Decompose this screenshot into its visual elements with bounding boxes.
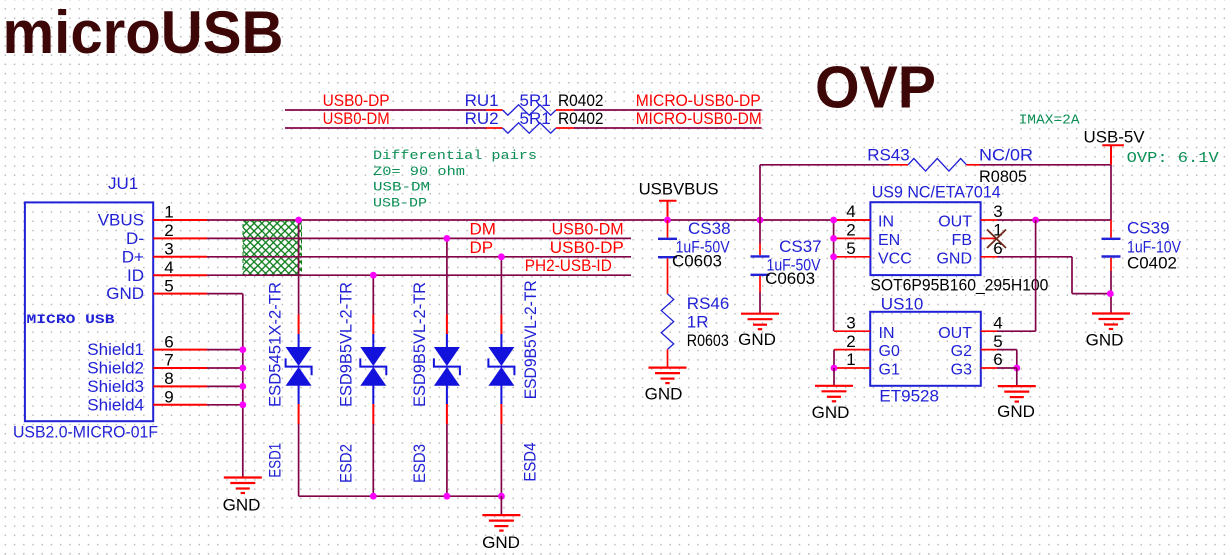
- wire G1 junction to ground: [833, 368, 835, 386]
- wire VBUS / USBVBUS main net: [207, 219, 870, 221]
- JU1 shield pin 9 stub: [153, 404, 207, 406]
- wire US9 GND net: [997, 256, 1072, 258]
- US10 pin 1 stub: [834, 367, 870, 369]
- ground symbol (CS37): [741, 314, 779, 330]
- wire D- net: [207, 237, 631, 239]
- capacitor CS39 top lead: [1110, 220, 1112, 238]
- resistor RS46: [661, 294, 673, 350]
- svg-text:OVP: OVP: [815, 55, 936, 121]
- wire G2 to G3 junction: [997, 349, 1017, 351]
- ground symbol (RS46): [649, 368, 687, 384]
- svg-text:VCC: VCC: [878, 250, 912, 267]
- resistor RU1: [503, 105, 557, 115]
- JU1 pin 1 stub: [153, 219, 207, 221]
- svg-text:USB0-DP: USB0-DP: [323, 91, 390, 110]
- no-connect X on FB: [987, 230, 1006, 249]
- svg-text:ET9528: ET9528: [879, 387, 939, 406]
- junction ESD4 at net: [498, 253, 505, 260]
- resistor RU2 right lead: [556, 127, 574, 129]
- svg-text:RS46: RS46: [687, 294, 730, 313]
- svg-text:GND: GND: [812, 403, 850, 422]
- svg-text:9: 9: [164, 388, 173, 407]
- svg-text:2: 2: [846, 332, 855, 351]
- wire G0 to G1 junction: [833, 350, 835, 368]
- TVS diode ESD2: [372, 315, 374, 335]
- net MICRO-USB0-DM wire: [574, 127, 762, 129]
- wire RS43 left: [760, 164, 889, 166]
- US10 pin 3 stub: [834, 330, 870, 332]
- wire ESD1 branch from net: [298, 220, 300, 315]
- svg-text:ESD5451X-2-TR: ESD5451X-2-TR: [266, 282, 285, 407]
- svg-text:NC/0R: NC/0R: [979, 146, 1033, 165]
- svg-text:IN: IN: [878, 214, 894, 231]
- svg-text:Shield1: Shield1: [87, 340, 144, 359]
- svg-text:US10: US10: [881, 295, 924, 314]
- capacitor CS39: [1102, 239, 1121, 257]
- junction rail ESD4: [498, 493, 505, 500]
- svg-text:2: 2: [164, 221, 173, 240]
- differential pair blanket (green hatched region): [243, 221, 302, 275]
- svg-text:G0: G0: [879, 343, 900, 360]
- svg-text:OUT: OUT: [938, 325, 972, 342]
- net USB0-DP wire (left): [285, 109, 486, 111]
- resistor RS43 left lead: [889, 164, 908, 166]
- svg-text:CS38: CS38: [688, 219, 731, 238]
- JU1 shield pin 8 stub: [153, 385, 207, 387]
- wire USBVBUS rail down to US10: [833, 220, 835, 331]
- wire OUT branch down to US10 OUT: [1035, 220, 1037, 331]
- op-amp U10 box (IC US10): [870, 312, 981, 386]
- svg-text:DM: DM: [470, 220, 496, 239]
- svg-text:VBUS: VBUS: [98, 211, 144, 230]
- junction shield3: [239, 383, 246, 390]
- wire ESD1 to ground rail: [298, 424, 300, 496]
- ground symbol (CS39): [1092, 314, 1130, 330]
- svg-text:Differential pairs: Differential pairs: [373, 148, 537, 163]
- TVS diode ESD4: [500, 315, 502, 335]
- svg-text:GND: GND: [1086, 331, 1124, 350]
- svg-text:Shield2: Shield2: [87, 359, 144, 378]
- svg-text:MICRO-USB0-DM: MICRO-USB0-DM: [636, 109, 762, 128]
- wire ESD2 branch from net: [372, 275, 374, 314]
- wire ESD4 branch from net: [500, 257, 502, 315]
- wire shield2 to ground rail: [207, 367, 243, 369]
- wire ESD3 to ground rail: [446, 424, 448, 496]
- svg-text:GND: GND: [223, 496, 261, 515]
- wire D+ net: [207, 256, 631, 258]
- wire shield3 to ground rail: [207, 385, 243, 387]
- svg-text:JU1: JU1: [108, 174, 138, 193]
- ground symbol (US10 right): [998, 386, 1036, 402]
- svg-text:USB-DP: USB-DP: [373, 196, 427, 211]
- svg-text:D+: D+: [122, 247, 144, 266]
- svg-text:G1: G1: [879, 362, 900, 379]
- svg-text:7: 7: [164, 351, 173, 370]
- svg-text:GND: GND: [738, 330, 776, 349]
- svg-text:CS39: CS39: [1127, 219, 1170, 238]
- svg-text:8: 8: [164, 369, 173, 388]
- svg-text:SOT6P95B160_295H100: SOT6P95B160_295H100: [870, 276, 1048, 295]
- svg-text:4: 4: [164, 258, 173, 277]
- svg-text:5: 5: [164, 276, 173, 295]
- junction rail ESD2: [370, 493, 377, 500]
- wire CS37 junction up to RS43: [759, 165, 761, 220]
- resistor RS43: [908, 159, 967, 172]
- svg-text:GND: GND: [106, 284, 144, 303]
- svg-text:MICRO USB: MICRO USB: [27, 312, 115, 327]
- US9 pin 2 stub: [834, 237, 870, 239]
- svg-text:USB-5V: USB-5V: [1084, 127, 1146, 146]
- svg-text:5: 5: [993, 332, 1002, 351]
- svg-text:IN: IN: [879, 325, 895, 342]
- wire rail to ground symbol: [500, 496, 502, 515]
- svg-text:1R: 1R: [687, 313, 709, 332]
- TVS diode ESD3: [446, 315, 448, 335]
- svg-text:3: 3: [993, 202, 1002, 221]
- junction G2/G3: [1013, 365, 1020, 372]
- resistor RU2: [503, 123, 557, 133]
- svg-text:ESD9B5VL-2-TR: ESD9B5VL-2-TR: [521, 280, 540, 399]
- junction rail ESD3: [444, 493, 451, 500]
- capacitor CS37: [751, 256, 770, 274]
- svg-text:R0402: R0402: [558, 109, 604, 128]
- JU1 pin 2 stub: [153, 237, 207, 239]
- resistor RU1 left lead: [486, 109, 503, 111]
- svg-text:ESD9B5VL-2-TR: ESD9B5VL-2-TR: [337, 282, 356, 407]
- wire CS38 to RS46: [667, 258, 669, 294]
- svg-text:USBVBUS: USBVBUS: [639, 179, 719, 198]
- svg-text:OVP: 6.1V: OVP: 6.1V: [1127, 151, 1219, 167]
- US10 pin 4 stub: [981, 330, 997, 332]
- svg-text:MICRO-USB0-DP: MICRO-USB0-DP: [636, 91, 761, 110]
- svg-text:G3: G3: [951, 362, 972, 379]
- svg-text:G2: G2: [951, 343, 972, 360]
- junction ESD2 at net: [370, 272, 377, 279]
- svg-text:Z0= 90 ohm: Z0= 90 ohm: [373, 164, 465, 179]
- svg-text:R0402: R0402: [558, 91, 604, 110]
- ground symbol (JU1): [224, 478, 262, 494]
- junction OUT branch: [1032, 217, 1039, 224]
- capacitor CS37 top lead: [759, 244, 761, 256]
- svg-text:Shield3: Shield3: [87, 377, 144, 396]
- US9 GND stub: [981, 256, 997, 258]
- power stub USB-5V: [1102, 145, 1124, 165]
- ESD ground rail wire: [299, 495, 502, 497]
- svg-text:5R1: 5R1: [520, 91, 551, 110]
- svg-text:PH2-USB-ID: PH2-USB-ID: [525, 256, 612, 275]
- junction ESD1 at net: [295, 217, 302, 224]
- svg-text:C0603: C0603: [765, 269, 815, 288]
- connector JU1 box: [25, 202, 153, 421]
- svg-text:R0603: R0603: [687, 331, 729, 350]
- net MICRO-USB0-DP wire: [574, 109, 762, 111]
- JU1 shield pin 7 stub: [153, 367, 207, 369]
- op-amp U9 box (IC US9): [870, 202, 980, 275]
- junction rail top: [830, 217, 837, 224]
- svg-text:USB0-DM: USB0-DM: [323, 109, 390, 128]
- svg-text:DP: DP: [470, 238, 494, 257]
- US10 pin 5 stub: [981, 349, 997, 351]
- junction CS37/RS43: [757, 217, 764, 224]
- svg-text:4: 4: [846, 202, 855, 221]
- resistor RU1 right lead: [556, 109, 574, 111]
- US10 pin 2 stub: [834, 349, 870, 351]
- junction CS39/US9 GND: [1107, 290, 1114, 297]
- net label stub USBVBUS: [659, 201, 677, 220]
- svg-text:GND: GND: [936, 250, 972, 267]
- wire RS46 to ground: [667, 349, 669, 367]
- svg-text:ESD4: ESD4: [521, 443, 540, 482]
- junction G0/G1: [831, 365, 838, 372]
- wire CS37 branch: [759, 220, 761, 244]
- capacitor CS37 bottom lead: [759, 276, 761, 292]
- US9 pin 4 stub: [834, 219, 870, 221]
- svg-text:RU2: RU2: [465, 109, 499, 128]
- wire RS43 to USB-5V: [980, 164, 1112, 166]
- svg-text:4: 4: [993, 313, 1002, 332]
- US9 OUT stub: [981, 219, 997, 221]
- capacitor CS38: [658, 239, 677, 257]
- wire CS39 to ground: [1110, 271, 1112, 314]
- svg-text:USB0-DP: USB0-DP: [550, 238, 624, 257]
- US9 FB stub: [981, 237, 996, 239]
- svg-text:2: 2: [846, 221, 855, 240]
- svg-text:OUT: OUT: [938, 214, 972, 231]
- US9 pin 5 stub: [834, 256, 870, 258]
- junction rail VCC: [830, 253, 837, 260]
- wire ID net: [207, 274, 631, 276]
- svg-text:1: 1: [164, 203, 173, 222]
- capacitor CS38 top lead: [667, 220, 669, 238]
- svg-text:D-: D-: [126, 229, 144, 248]
- svg-text:3: 3: [846, 313, 855, 332]
- svg-text:GND: GND: [997, 402, 1035, 421]
- svg-text:RS43: RS43: [867, 146, 910, 165]
- JU1 shield pin 6 stub: [153, 349, 207, 351]
- svg-text:ESD9B5VL-2-TR: ESD9B5VL-2-TR: [410, 282, 429, 407]
- svg-text:6: 6: [993, 239, 1002, 258]
- svg-text:C0402: C0402: [1127, 254, 1177, 273]
- svg-text:US9 NC/ETA7014: US9 NC/ETA7014: [872, 183, 1001, 202]
- US10 pin 6 stub: [981, 367, 997, 369]
- junction shield2: [239, 365, 246, 372]
- svg-text:GND: GND: [482, 533, 520, 552]
- capacitor CS39 bottom lead: [1110, 258, 1112, 271]
- svg-text:ESD3: ESD3: [410, 444, 429, 483]
- JU1 pin 4 stub: [153, 274, 207, 276]
- net USB0-DM wire (left): [285, 127, 486, 129]
- wire US9 OUT net to USB-5V vertical: [997, 219, 1111, 221]
- svg-text:USB2.0-MICRO-01F: USB2.0-MICRO-01F: [13, 423, 158, 442]
- junction shield4: [239, 401, 246, 408]
- svg-text:FB: FB: [952, 232, 972, 249]
- junction CS38: [664, 217, 671, 224]
- ground symbol (ESD rail): [482, 515, 520, 531]
- JU1 pin 3 stub: [153, 256, 207, 258]
- wire GND pin5 to ground rail: [207, 293, 243, 295]
- svg-text:5: 5: [846, 239, 855, 258]
- svg-text:ESD2: ESD2: [337, 444, 356, 483]
- resistor RU2 left lead: [486, 127, 503, 129]
- svg-text:microUSB: microUSB: [3, 0, 284, 66]
- resistor RS43 right lead: [967, 164, 980, 166]
- wire ESD4 to ground rail: [500, 424, 502, 496]
- svg-text:1: 1: [846, 350, 855, 369]
- wire shield4 to ground rail: [207, 404, 243, 406]
- svg-text:Shield4: Shield4: [87, 395, 144, 414]
- svg-text:IMAX=2A: IMAX=2A: [1019, 113, 1081, 128]
- svg-text:6: 6: [164, 332, 173, 351]
- junction rail EN: [830, 235, 837, 242]
- svg-text:GND: GND: [645, 385, 683, 404]
- TVS diode ESD1: [298, 315, 300, 335]
- wire ESD3 branch from net: [446, 238, 448, 314]
- svg-text:3: 3: [164, 240, 173, 259]
- svg-text:ESD1: ESD1: [266, 443, 285, 478]
- svg-text:USB0-DM: USB0-DM: [552, 220, 624, 239]
- junction ESD3 at net: [444, 235, 451, 242]
- svg-text:6: 6: [993, 350, 1002, 369]
- wire shield1 to ground rail: [207, 349, 243, 351]
- wire USB-5V down to OUT net: [1110, 165, 1112, 220]
- svg-text:CS37: CS37: [779, 237, 822, 256]
- wire CS37 to ground: [759, 292, 761, 314]
- wire G3 junction to ground: [997, 367, 1017, 369]
- wire ESD2 to ground rail: [372, 424, 374, 496]
- svg-text:ID: ID: [127, 266, 144, 285]
- svg-text:5R1: 5R1: [520, 109, 551, 128]
- svg-text:USB-DM: USB-DM: [373, 179, 430, 194]
- svg-text:C0603: C0603: [672, 251, 722, 270]
- JU1 pin 5 stub: [153, 293, 207, 295]
- ground symbol (US10 left): [815, 386, 853, 402]
- svg-text:RU1: RU1: [465, 91, 499, 110]
- svg-text:EN: EN: [878, 232, 900, 249]
- junction shield1: [239, 346, 246, 353]
